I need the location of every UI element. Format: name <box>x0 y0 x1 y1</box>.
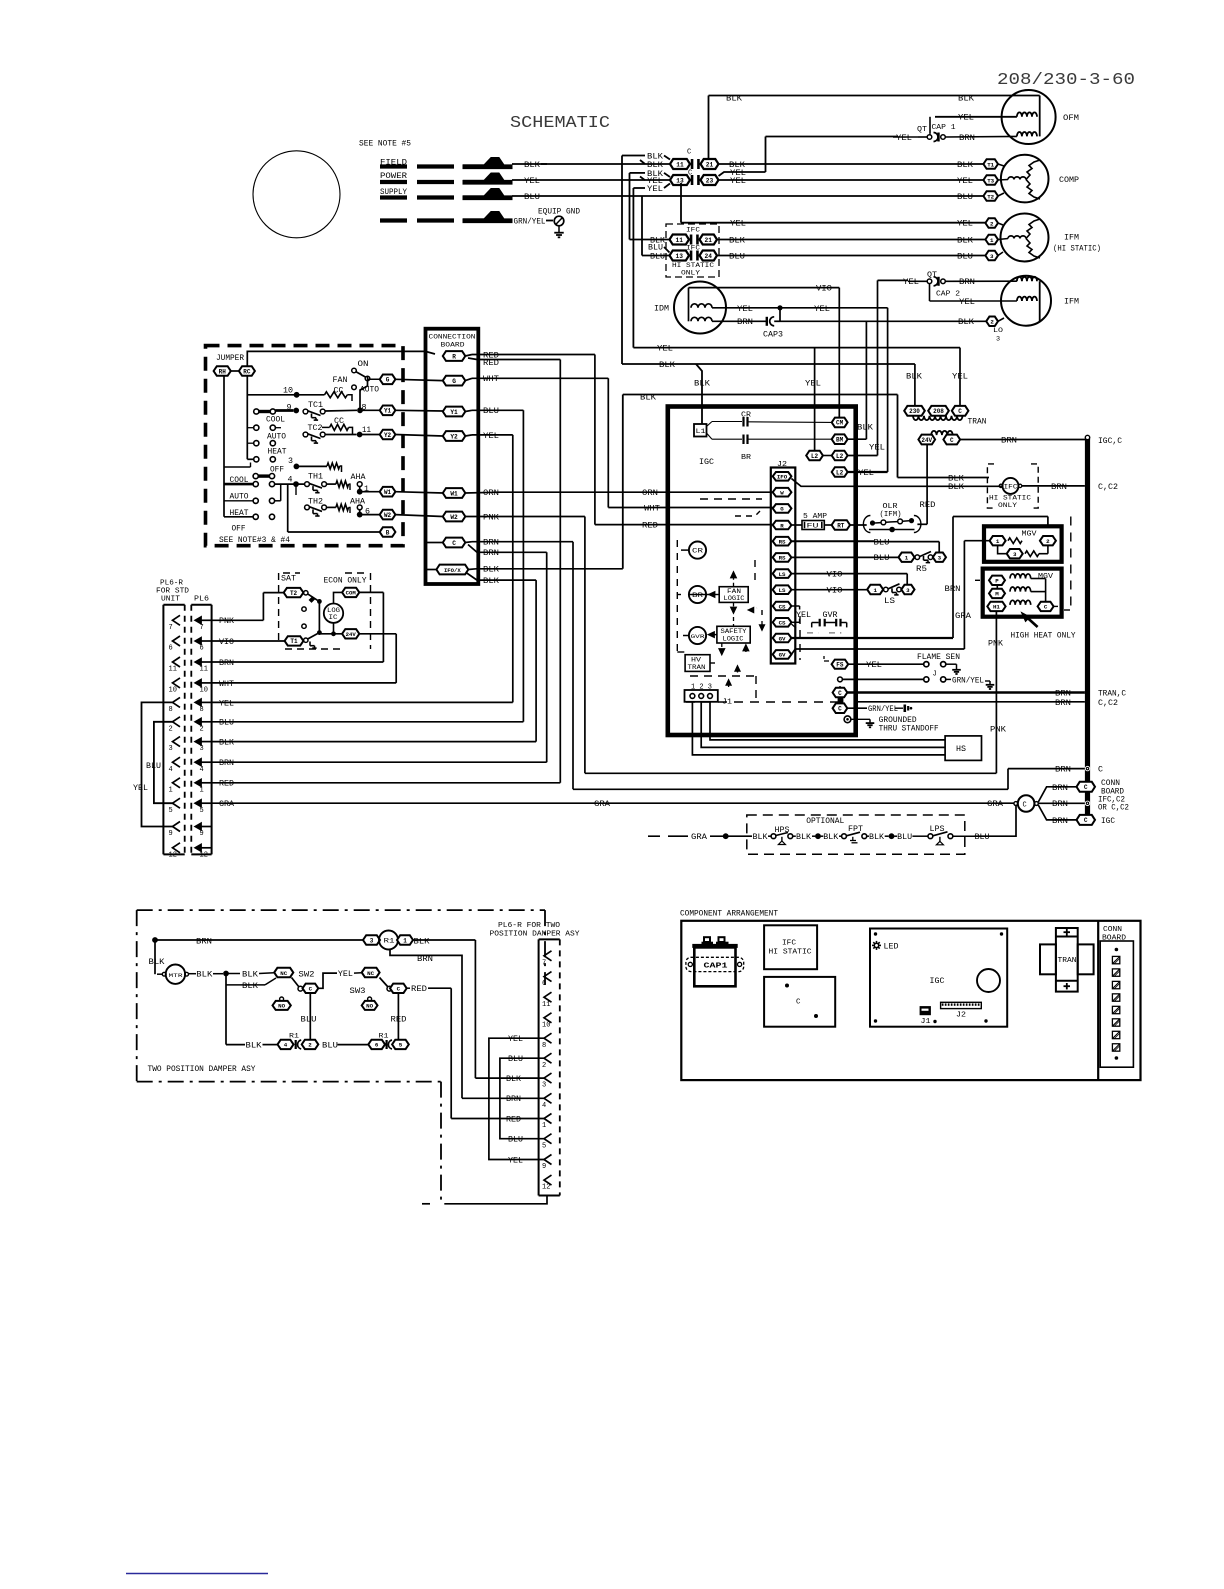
svg-text:C: C <box>1084 817 1088 824</box>
arrow into SAFETY right <box>745 647 747 653</box>
PL6-R damper pin 5 <box>544 1134 552 1144</box>
svg-text:G: G <box>780 506 784 513</box>
HIGH HEAT ONLY arrow <box>1026 617 1038 628</box>
junction block between C terminals <box>838 698 843 703</box>
svg-text:SW2: SW2 <box>299 971 315 979</box>
PL6-R pin 3 <box>173 737 181 747</box>
contactor coil circle CR <box>689 542 706 559</box>
svg-text:YEL: YEL <box>957 178 973 186</box>
svg-text:YEL: YEL <box>508 1036 523 1044</box>
wire BRN C,C2 row <box>856 701 1085 703</box>
PL6-R damper pin 12 <box>544 1175 552 1185</box>
svg-text:LS: LS <box>779 587 786 594</box>
svg-text:7: 7 <box>542 959 546 967</box>
wire BRN to bus IFC,C2 <box>1038 802 1085 804</box>
svg-text:YEL: YEL <box>730 170 746 178</box>
svg-text:BRN: BRN <box>417 956 433 964</box>
svg-text:LO: LO <box>993 327 1003 335</box>
connection board terminal Y1 <box>443 407 466 417</box>
svg-text:12: 12 <box>200 851 208 859</box>
wire VIO to SAT T1 <box>212 640 285 642</box>
svg-text:BLK: BLK <box>506 1076 521 1084</box>
svg-text:LS: LS <box>779 571 786 578</box>
svg-text:IFO/X: IFO/X <box>444 567 461 574</box>
svg-text:BLK: BLK <box>796 834 811 842</box>
grounded thru standoff <box>844 716 851 723</box>
terminal C to bus TRAN,C <box>833 688 848 698</box>
wire RED SW3 to pin1 <box>407 987 410 989</box>
arrow SAFETY LOGIC to GVR <box>711 634 717 636</box>
SAFETY LOGIC box <box>717 626 750 643</box>
svg-text:OLR: OLR <box>883 503 899 511</box>
svg-text:10: 10 <box>200 687 208 695</box>
terminal COM <box>318 601 320 632</box>
svg-text:P: P <box>995 578 999 585</box>
wire BRN damper top <box>152 937 158 943</box>
svg-text:4: 4 <box>169 766 173 774</box>
svg-text:IFO: IFO <box>777 474 788 481</box>
terminal T1 <box>285 636 304 645</box>
wire BLU RS1 to R5 <box>791 540 874 542</box>
svg-text:2: 2 <box>542 1062 546 1070</box>
footer blue line <box>126 1573 268 1575</box>
wire BLK IFO/X to IFC net <box>622 395 624 569</box>
svg-text:3: 3 <box>990 253 994 260</box>
svg-text:RED: RED <box>219 781 234 789</box>
PL6-R pin 12 <box>173 843 181 853</box>
svg-text:2: 2 <box>200 725 204 733</box>
svg-text:3: 3 <box>200 745 204 753</box>
svg-text:YEL: YEL <box>647 186 663 194</box>
svg-text:12: 12 <box>169 851 177 859</box>
svg-text:23: 23 <box>706 177 714 184</box>
PL6-R damper pin 3 <box>544 1073 552 1083</box>
svg-text:OFF: OFF <box>232 526 246 534</box>
PL6 pin 12 <box>195 844 202 852</box>
J2 terminal RS <box>773 553 792 562</box>
svg-text:GROUNDED: GROUNDED <box>879 717 917 725</box>
small arrow up x737 <box>737 668 739 673</box>
svg-text:C: C <box>1023 801 1027 809</box>
PL6-R pin 2 <box>173 717 181 727</box>
jumper BLU pins 2-5 <box>154 722 173 803</box>
svg-text:3: 3 <box>370 937 374 944</box>
svg-text:ECON ONLY: ECON ONLY <box>324 578 367 586</box>
wire BLU RS2 to R5 contact <box>791 556 898 558</box>
svg-text:11: 11 <box>676 237 684 244</box>
wire BRN GV1 to MGV <box>791 637 953 639</box>
J2 terminal LS <box>773 585 792 594</box>
jumper terminal W2 <box>380 510 396 520</box>
svg-text:YEL: YEL <box>730 178 746 186</box>
svg-text:LS: LS <box>884 598 895 606</box>
svg-text:EQUIP GND: EQUIP GND <box>538 209 580 217</box>
svg-text:11: 11 <box>362 427 371 435</box>
jumper terminal B <box>287 484 289 532</box>
wire BM to IDM row <box>848 438 867 440</box>
J2 terminal GV <box>773 650 792 659</box>
wire BRN IFC to bus C,C2 <box>1022 485 1085 487</box>
dashed arrow FAN to SAFETY <box>733 602 735 611</box>
wire BRN C to bus C <box>465 541 472 544</box>
wire YEL L2 to CAP2/IFM <box>848 455 878 457</box>
terminal T1 <box>983 159 998 169</box>
svg-text:3: 3 <box>996 335 1000 343</box>
svg-text:R1: R1 <box>289 1033 299 1040</box>
selector link row3 up <box>275 500 281 502</box>
wire YEL SW2 to SW3 <box>318 973 337 988</box>
svg-text:RED: RED <box>642 523 658 531</box>
svg-text:BRN: BRN <box>1052 785 1068 793</box>
PL6-R damper pin 6 <box>544 972 552 982</box>
svg-text:BRN: BRN <box>1001 437 1017 445</box>
wire RED R to PL6 1 <box>468 358 560 360</box>
PL6 pin 2 <box>195 718 202 726</box>
svg-text:QT: QT <box>927 272 937 280</box>
PL6 pin 3 <box>195 738 202 746</box>
svg-text:BLK: BLK <box>958 95 974 103</box>
svg-text:ORN: ORN <box>642 490 658 498</box>
svg-text:YEL: YEL <box>858 470 874 478</box>
terminal 2 <box>985 218 998 228</box>
terminal T2 <box>284 588 304 597</box>
svg-text:1: 1 <box>990 237 994 244</box>
wire CS2 stub <box>791 621 799 623</box>
connector J2 component <box>941 1002 982 1008</box>
J2 terminal G <box>773 504 792 513</box>
svg-text:C: C <box>838 690 842 697</box>
svg-text:IFC: IFC <box>782 940 796 948</box>
wire PNK H1 to W2 net <box>995 611 997 773</box>
svg-text:AHA: AHA <box>351 474 366 482</box>
svg-text:YEL: YEL <box>796 612 811 620</box>
capacitor CAP3 <box>712 320 766 322</box>
svg-text:FU: FU <box>807 523 819 530</box>
svg-text:BRN: BRN <box>1052 818 1068 826</box>
svg-text:BLK: BLK <box>948 475 964 483</box>
wire BRN C to PL6 4 <box>468 545 547 553</box>
svg-text:BLU: BLU <box>322 1043 338 1051</box>
transformer TRAN primary <box>904 406 925 416</box>
svg-text:BRN: BRN <box>945 586 961 594</box>
wire BLK bend to TRAN 230 <box>622 363 915 365</box>
svg-text:9: 9 <box>200 830 204 838</box>
svg-text:24V: 24V <box>921 437 932 444</box>
wire RED into pin 1 <box>451 1118 544 1120</box>
svg-text:C,C2: C,C2 <box>1098 700 1118 708</box>
svg-text:BRN: BRN <box>1052 801 1068 809</box>
connection board terminal IFO/X <box>427 542 443 544</box>
svg-text:230: 230 <box>909 408 920 415</box>
svg-text:TRAN: TRAN <box>968 419 987 427</box>
svg-text:1: 1 <box>200 786 204 794</box>
svg-text:C,C2: C,C2 <box>1098 484 1118 492</box>
arrow down from SAFETY <box>721 643 723 652</box>
svg-text:CONN: CONN <box>1101 780 1120 788</box>
svg-text:C: C <box>838 706 842 713</box>
svg-text:208/230-3-60: 208/230-3-60 <box>997 70 1135 89</box>
wire YEL vertical to TRAN C <box>632 188 634 348</box>
svg-text:IDM: IDM <box>654 305 669 313</box>
svg-text:BRN: BRN <box>219 760 234 768</box>
wire YEL 13 to IFM-HS 2 <box>680 183 682 223</box>
svg-text:BLK: BLK <box>414 938 430 946</box>
CONNECTION BOARD box <box>426 329 479 584</box>
svg-text:UNIT: UNIT <box>161 596 180 604</box>
svg-text:C: C <box>958 408 962 415</box>
svg-text:6: 6 <box>542 980 546 988</box>
wire WHT to ECON 24V <box>212 682 396 684</box>
svg-text:1: 1 <box>542 1122 546 1130</box>
svg-text:C: C <box>1044 604 1048 611</box>
svg-text:BLK: BLK <box>869 834 884 842</box>
svg-text:GRA: GRA <box>987 801 1003 809</box>
svg-text:(HI STATIC): (HI STATIC) <box>1053 246 1101 254</box>
svg-text:BLK: BLK <box>246 1043 262 1051</box>
terminal RT <box>832 520 850 530</box>
svg-text:J: J <box>933 670 937 678</box>
switch SW2 <box>274 968 293 977</box>
IFC HI STATIC component box <box>764 925 817 969</box>
thermostat JUMPER dashed box <box>206 346 404 546</box>
svg-text:BRN: BRN <box>737 319 753 327</box>
svg-text:BLK: BLK <box>659 362 675 370</box>
SAT switch T2 <box>304 591 308 595</box>
svg-text:1: 1 <box>403 937 407 944</box>
svg-text:OR C,C2: OR C,C2 <box>1098 805 1129 813</box>
PL6 pin 5 <box>195 799 202 807</box>
connection board terminal W2 <box>443 512 466 522</box>
wire BRN to IGC hex <box>1038 805 1077 820</box>
J2 terminal GV <box>773 634 792 643</box>
svg-text:BLU: BLU <box>874 555 890 563</box>
svg-text:BLU: BLU <box>874 540 890 548</box>
bus vertical C <box>1085 437 1090 820</box>
svg-text:BLU: BLU <box>975 834 990 842</box>
svg-text:GRA: GRA <box>219 801 234 809</box>
svg-text:SAT: SAT <box>281 576 296 584</box>
svg-text:5: 5 <box>399 1042 403 1049</box>
PL6-R pin 4 <box>173 757 181 767</box>
svg-text:TWO POSITION DAMPER ASY: TWO POSITION DAMPER ASY <box>148 1066 256 1074</box>
svg-text:M: M <box>995 591 999 598</box>
transformer TRAN secondary <box>931 431 953 435</box>
svg-text:ORN: ORN <box>483 490 499 498</box>
svg-text:QT: QT <box>917 126 927 134</box>
PL6 column box <box>191 604 211 606</box>
PL6-R damper pin 2 <box>544 1053 552 1063</box>
svg-text:RED: RED <box>483 360 499 368</box>
svg-text:C: C <box>309 986 313 993</box>
svg-text:3: 3 <box>1013 551 1017 558</box>
svg-text:11: 11 <box>676 161 684 168</box>
wire RED to J2 R <box>595 524 773 526</box>
wire PNK to SAT T2 <box>212 619 263 621</box>
svg-text:HIGH HEAT ONLY: HIGH HEAT ONLY <box>1011 633 1076 641</box>
wire YEL branch to L2 <box>814 348 816 451</box>
svg-text:W2: W2 <box>450 514 458 521</box>
svg-text:RED: RED <box>411 986 427 994</box>
limit switch LS <box>867 585 883 594</box>
svg-text:W: W <box>780 490 784 497</box>
svg-text:Y1: Y1 <box>450 409 458 416</box>
svg-text:R1: R1 <box>384 938 395 945</box>
svg-text:CAP 1: CAP 1 <box>932 124 956 132</box>
jumper terminal RC <box>239 366 255 376</box>
round opening on IGC board <box>977 969 1000 992</box>
wire BLK IFO/X riser <box>468 568 476 571</box>
motor OFM <box>1002 90 1056 144</box>
svg-text:CONNECTION: CONNECTION <box>429 334 476 342</box>
wire BLU IFC 24 to IFM-HS 3 <box>717 255 985 257</box>
wire BLK IFO/X to PL6 3 <box>466 573 536 581</box>
svg-text:BLU: BLU <box>301 1017 317 1025</box>
svg-text:8: 8 <box>200 706 204 714</box>
PL6-R pin 6 <box>173 636 181 646</box>
svg-text:BM: BM <box>836 437 844 444</box>
svg-text:G: G <box>452 378 456 385</box>
svg-text:IGC: IGC <box>930 978 945 986</box>
svg-text:TRAN: TRAN <box>1058 957 1077 965</box>
svg-text:TC1: TC1 <box>308 402 323 410</box>
svg-text:C: C <box>796 999 801 1007</box>
svg-text:FAN: FAN <box>333 377 348 385</box>
svg-text:COMP: COMP <box>1059 177 1079 185</box>
svg-text:YEL: YEL <box>219 700 234 708</box>
svg-text:PNK: PNK <box>990 727 1006 735</box>
svg-text:AUTO: AUTO <box>267 434 286 442</box>
svg-text:RED: RED <box>920 502 936 510</box>
svg-text:BLU: BLU <box>483 408 499 416</box>
svg-text:1: 1 <box>996 538 1000 545</box>
wire RED R to IGC R <box>465 355 472 357</box>
svg-text:WHT: WHT <box>483 376 499 384</box>
svg-text:BOARD: BOARD <box>1101 789 1124 797</box>
wire BLK vertical to TRAN 230 <box>621 156 623 365</box>
wire WHT to J2 G <box>608 507 772 509</box>
gas valve relay circle GVR <box>689 627 706 644</box>
dashed boundary right of MGV <box>1070 517 1072 611</box>
svg-text:SEE NOTE #5: SEE NOTE #5 <box>359 141 411 149</box>
svg-text:11: 11 <box>200 666 208 674</box>
wire BRN to ECON COM <box>212 661 383 663</box>
svg-text:8: 8 <box>169 706 173 714</box>
svg-text:5: 5 <box>169 807 173 815</box>
svg-text:CS: CS <box>779 603 786 610</box>
wire BLU Y1 to PL6 2 <box>465 410 472 411</box>
wire BLK MTR to SW2 <box>189 973 197 975</box>
terminal L2 third <box>832 467 848 477</box>
wire BLK branch lower <box>225 974 227 1045</box>
relay R1 coil <box>363 935 380 945</box>
svg-text:BLU: BLU <box>729 253 745 261</box>
J2 terminal R <box>773 521 792 530</box>
svg-text:FS: FS <box>836 662 844 669</box>
svg-text:YEL: YEL <box>133 785 148 793</box>
svg-text:W1: W1 <box>384 489 392 496</box>
svg-text:THRU STANDOFF: THRU STANDOFF <box>879 726 939 734</box>
terminal BM <box>832 434 848 444</box>
svg-text:6: 6 <box>200 645 204 653</box>
svg-text:J1: J1 <box>921 1018 931 1026</box>
svg-text:T1: T1 <box>290 638 298 645</box>
svg-text:COM: COM <box>346 590 357 597</box>
svg-text:NC: NC <box>367 970 374 977</box>
svg-text:R: R <box>452 353 456 360</box>
svg-text:IC: IC <box>329 614 338 621</box>
svg-text:RT: RT <box>837 522 845 529</box>
svg-text:IFM: IFM <box>1064 299 1079 307</box>
svg-text:10: 10 <box>169 687 177 695</box>
J2 terminal W <box>773 488 792 497</box>
PL6 pin 4 <box>195 758 202 766</box>
svg-text:BLK: BLK <box>219 740 234 748</box>
transformer TRAN component <box>1056 928 1078 992</box>
svg-text:4: 4 <box>542 1102 546 1110</box>
wire YEL 23 branch to CAP1 <box>719 172 766 176</box>
svg-text:GRA: GRA <box>955 613 971 621</box>
PL6-R two position column box <box>539 938 560 940</box>
OPTIONAL dashed box <box>747 815 965 854</box>
svg-text:9: 9 <box>169 830 173 838</box>
svg-text:T1: T1 <box>987 161 994 168</box>
svg-text:Y1: Y1 <box>384 408 392 415</box>
svg-text:WHT: WHT <box>219 681 234 689</box>
IGC control board box <box>668 407 856 736</box>
svg-text:RED: RED <box>506 1116 521 1124</box>
svg-text:HV: HV <box>691 657 701 664</box>
PL6-R pin 7 <box>173 615 181 625</box>
wire YEL bend to TRAN C <box>633 347 960 349</box>
switch SW3 <box>362 968 380 977</box>
svg-text:BLK: BLK <box>957 162 973 170</box>
PL6-R column box <box>163 604 184 606</box>
svg-text:BLK: BLK <box>729 162 745 170</box>
svg-text:BOARD: BOARD <box>441 342 465 350</box>
wire bottom return damper <box>444 1196 547 1204</box>
svg-text:RC: RC <box>243 368 251 375</box>
svg-text:SW3: SW3 <box>350 988 366 996</box>
rollout switch R5 <box>899 553 915 562</box>
connection board terminal C <box>443 538 466 548</box>
terminal 1 <box>985 235 998 245</box>
wire BRN R1 to pin4 <box>390 950 462 1099</box>
svg-text:CS: CS <box>779 620 786 627</box>
terminal 3 <box>985 251 998 261</box>
svg-text:RS: RS <box>779 555 786 562</box>
wire BLK to IFC circle <box>898 477 990 479</box>
svg-text:NO: NO <box>278 1003 285 1010</box>
svg-text:C: C <box>1098 767 1103 775</box>
wire J1-2 to HS <box>701 702 945 748</box>
SAT switch T1 <box>304 638 308 642</box>
svg-text:8: 8 <box>542 1042 546 1050</box>
splice C circle <box>1018 795 1035 812</box>
svg-text:ONLY: ONLY <box>681 270 700 278</box>
wire BRN IDM row to BM and IFM <box>780 320 986 322</box>
svg-text:2: 2 <box>169 725 173 733</box>
svg-text:YEL: YEL <box>959 299 975 307</box>
svg-text:3: 3 <box>169 745 173 753</box>
svg-text:BLU: BLU <box>524 194 540 202</box>
connection board terminal G <box>443 376 466 386</box>
svg-text:6: 6 <box>375 1042 379 1049</box>
svg-text:GRN/YEL: GRN/YEL <box>868 706 898 714</box>
svg-text:LOGIC: LOGIC <box>723 636 744 643</box>
svg-text:YEL: YEL <box>338 971 353 979</box>
wire RC vertical <box>246 376 248 460</box>
damper dashed boundary <box>137 909 545 911</box>
